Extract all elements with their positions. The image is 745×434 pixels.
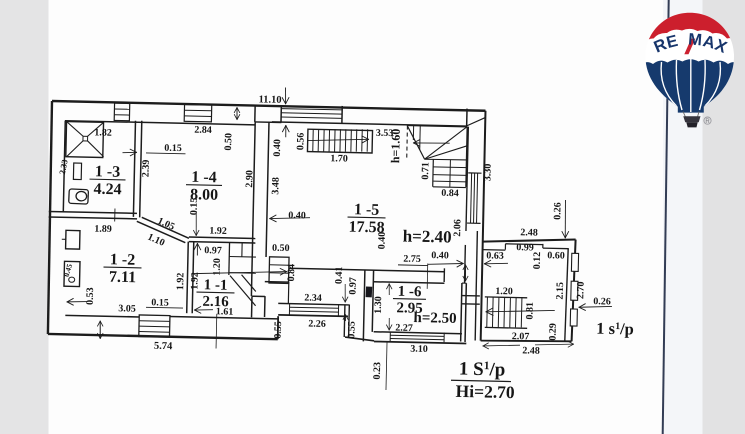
svg-text:0.97: 0.97 (348, 277, 359, 295)
svg-text:1 -3: 1 -3 (95, 163, 121, 181)
south wall thickness arrows (99, 321, 102, 339)
bottom wall of room 1-3 (49, 211, 137, 213)
balloon basket ropes (683, 112, 686, 118)
svg-text:0.41: 0.41 (334, 266, 345, 284)
svg-text:0.81: 0.81 (524, 302, 535, 320)
vertical navy divider line (663, 0, 669, 434)
winder main diagonal (407, 126, 426, 160)
dimension tick 1.89 (114, 208, 116, 221)
svg-text:0.15: 0.15 (189, 198, 200, 216)
winder stair top line (407, 125, 467, 126)
svg-text:2.48: 2.48 (522, 345, 540, 356)
svg-text:1 -1: 1 -1 (204, 277, 228, 294)
porch wall thickness arrows (464, 265, 467, 281)
svg-text:2.90: 2.90 (244, 170, 255, 188)
porch extension east wall (572, 240, 576, 342)
svg-text:1 -2: 1 -2 (110, 251, 136, 269)
east wall window 3.30 (471, 173, 472, 223)
east wall inner line upper (466, 127, 468, 231)
east wall inner line lower (475, 231, 478, 340)
west edge of terrace recess (287, 282, 289, 304)
outer wall north (52, 101, 486, 111)
diagonal corridor wall lower line (136, 221, 185, 242)
svg-text:2.07: 2.07 (512, 331, 530, 342)
west wall of room 1-1 (187, 242, 189, 314)
svg-text:1 -6: 1 -6 (398, 284, 423, 301)
stair in room 1-1 upper run (228, 243, 231, 275)
south interior wall line rooms 1-2 1-1 (65, 315, 139, 317)
svg-text:0.63: 0.63 (486, 250, 504, 261)
shower tray room 1-3 (66, 122, 104, 158)
small stair between 1-1 and 1-5 (269, 257, 289, 284)
room 1-6 east wall (461, 283, 462, 341)
remax balloon envelope (645, 13, 734, 113)
svg-text:0.53: 0.53 (85, 287, 96, 305)
right gray margin (703, 0, 745, 434)
svg-text:2.27: 2.27 (395, 323, 413, 334)
svg-text:2.75: 2.75 (403, 254, 421, 265)
west wall inner edge (63, 121, 65, 212)
window band W3 above room 1-5 west (281, 109, 342, 110)
svg-text:1 -5: 1 -5 (354, 201, 380, 219)
porch stair (485, 296, 527, 299)
corner wall piece south of room 1-1 (251, 296, 253, 317)
north wall inner edge rooms 1-3 1-4 (65, 121, 255, 125)
diagonal corridor wall upper line (141, 217, 189, 238)
left gray margin (0, 0, 49, 434)
svg-text:3.48: 3.48 (270, 177, 281, 195)
stove room 1-2 (66, 230, 80, 249)
svg-text:h=2.50: h=2.50 (413, 310, 456, 327)
room 1-6 door mark (366, 286, 373, 297)
direction arrow through room 1-1 (194, 270, 287, 276)
wall junction box between 1-4 and 1-5 top (254, 105, 256, 122)
svg-text:1 -4: 1 -4 (191, 169, 217, 187)
svg-text:0.84: 0.84 (441, 188, 459, 199)
sink unit room 1-2 (64, 261, 80, 286)
porch extension north wall inner with notch (483, 249, 506, 251)
south wall connector to room 1-6 (345, 337, 374, 341)
room 1-6 north wall (289, 268, 444, 271)
svg-text:0.55: 0.55 (273, 321, 284, 339)
porch east wall pilaster bumps (571, 253, 578, 271)
svg-text:1.61: 1.61 (216, 306, 234, 317)
wall between 1-1/1-4 and 1-5 (251, 122, 255, 296)
svg-text:0.55: 0.55 (346, 321, 357, 339)
svg-text:11.10: 11.10 (258, 94, 281, 106)
svg-text:0.29: 0.29 (547, 323, 558, 341)
room 1-6 south wall with window 3.10 (374, 332, 462, 334)
straight stair mid line with arrow (308, 138, 369, 142)
balloon basket (683, 116, 700, 122)
svg-text:0.50: 0.50 (272, 243, 290, 254)
faint blue tint right of plan (663, 0, 703, 434)
winder lower run (432, 159, 435, 186)
top wall box above stair landing (341, 106, 343, 123)
room 1-6 doorway east jamb (443, 268, 445, 282)
svg-text:2.26: 2.26 (308, 319, 326, 330)
outer wall west (47, 101, 53, 334)
svg-text:0.26: 0.26 (593, 296, 611, 307)
wall below small stair (265, 281, 289, 284)
washbasin room 1-3 (73, 163, 81, 180)
svg-text:3.10: 3.10 (410, 344, 428, 355)
entrance steps south wall (139, 315, 170, 337)
south wall of room 1-4 / top wall of room 1-1 (189, 237, 255, 238)
stair in room 1-1 winder diagonals (229, 276, 256, 306)
svg-text:2.39: 2.39 (141, 160, 152, 178)
svg-text:0.97: 0.97 (204, 245, 222, 256)
svg-text:1 S1/p: 1 S1/p (459, 359, 506, 381)
svg-text:3.53: 3.53 (376, 128, 394, 139)
svg-text:2.70: 2.70 (575, 281, 586, 299)
svg-text:0.15: 0.15 (164, 143, 182, 154)
svg-text:1.82: 1.82 (94, 127, 112, 138)
svg-text:1.92: 1.92 (209, 226, 227, 237)
toilet room 1-3 (69, 189, 89, 204)
svg-text:0.40: 0.40 (288, 210, 306, 221)
north interior line room 1-5 (272, 122, 467, 126)
svg-text:3.30: 3.30 (482, 164, 493, 182)
porch south wall (481, 339, 572, 342)
porch stair direction arrow (486, 309, 555, 313)
svg-text:0.71: 0.71 (420, 162, 431, 180)
svg-text:1.70: 1.70 (330, 153, 348, 164)
svg-text:0.56: 0.56 (295, 133, 306, 151)
window top wall W1 (114, 103, 130, 121)
svg-text:0.50: 0.50 (223, 133, 234, 151)
winder stair right edge (466, 127, 467, 187)
annex walls east of room 1-6 (462, 295, 480, 297)
svg-text:2.15: 2.15 (555, 282, 566, 300)
svg-text:1.92: 1.92 (175, 273, 186, 291)
svg-text:0.15: 0.15 (151, 297, 169, 308)
winder stair treads upper (412, 126, 414, 140)
south wing wall with window 2.34/2.26 (278, 303, 349, 305)
wall jog east of window 2.26 (343, 304, 346, 337)
registered trademark symbol (704, 117, 711, 124)
svg-text:0.12: 0.12 (532, 252, 543, 270)
svg-text:1.20: 1.20 (495, 286, 513, 297)
svg-text:h=2.40: h=2.40 (402, 226, 451, 246)
svg-text:0.26: 0.26 (552, 202, 563, 220)
remax balloon blue bottom (640, 59, 740, 125)
porch extension north wall outer (483, 238, 576, 244)
svg-text:0.40: 0.40 (431, 250, 449, 261)
svg-text:Hi=2.70: Hi=2.70 (455, 381, 515, 402)
room 1-6 west wall (363, 270, 365, 342)
window top wall W2 (184, 104, 212, 121)
outer wall south main (48, 334, 278, 339)
svg-text:0.40: 0.40 (377, 232, 388, 250)
svg-text:1.30: 1.30 (373, 296, 384, 314)
window strip 2.26 (288, 304, 290, 315)
svg-text:2.06: 2.06 (452, 219, 463, 237)
winder stair dashed line h=1.60 (406, 126, 409, 160)
svg-text:4.24: 4.24 (93, 181, 121, 199)
winder fan rays (425, 126, 468, 161)
svg-text:R: R (705, 119, 710, 125)
svg-text:2.48: 2.48 (520, 227, 538, 238)
svg-text:1.92: 1.92 (189, 272, 200, 290)
svg-text:0.23: 0.23 (372, 362, 383, 380)
svg-text:0.40: 0.40 (272, 139, 283, 157)
remax balloon red top (640, 6, 740, 45)
straight stair 1.70 in room 1-5 (307, 129, 372, 153)
svg-text:7.11: 7.11 (109, 269, 136, 287)
svg-text:0.60: 0.60 (547, 250, 565, 261)
remax balloon gore lines (661, 59, 720, 112)
east outer wall (480, 111, 485, 341)
svg-text:2.84: 2.84 (194, 125, 212, 136)
svg-text:2.34: 2.34 (304, 293, 322, 304)
svg-text:0.84: 0.84 (286, 264, 297, 282)
north-east interior corner line (467, 117, 486, 126)
winder direction arrow (413, 142, 449, 143)
svg-text:3.05: 3.05 (118, 303, 136, 314)
wall step south-east of room 1-1 (277, 316, 280, 339)
svg-text:1.89: 1.89 (94, 224, 112, 235)
wall between rooms 1-3 and 1-4 (133, 121, 135, 217)
svg-text:1.20: 1.20 (212, 258, 223, 276)
svg-text:5.74: 5.74 (154, 341, 173, 352)
